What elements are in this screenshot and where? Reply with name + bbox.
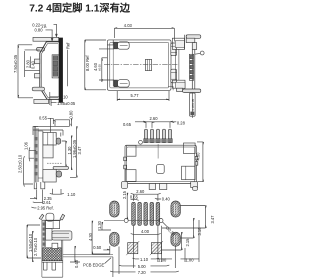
svg-text:0.40: 0.40	[162, 197, 171, 202]
hole circles + center line	[104, 220, 159, 222]
step under leg	[186, 38, 195, 42]
body	[107, 40, 171, 90]
dim 2.15 right low	[162, 232, 182, 250]
svg-text:PCB EDGE: PCB EDGE	[83, 262, 104, 267]
svg-text:0.80: 0.80	[35, 28, 44, 33]
svg-text:5.00: 5.00	[138, 264, 147, 269]
dim 3.47 right	[162, 206, 206, 229]
front plate with contacts	[34, 127, 38, 183]
svg-text:3.47: 3.47	[210, 215, 215, 224]
bottom foot left	[121, 181, 127, 188]
shell outline	[40, 42, 59, 100]
bottom fixing leg	[34, 99, 49, 103]
svg-text:7.50±0.05: 7.50±0.05	[13, 54, 18, 73]
svg-text:4.30: 4.30	[196, 152, 201, 161]
dim 3.47 right	[70, 126, 77, 177]
top-left step	[107, 40, 113, 45]
legs down	[43, 262, 55, 270]
svg-text:2.61: 2.61	[43, 200, 52, 205]
svg-text:1.85±0.05: 1.85±0.05	[57, 101, 76, 106]
bottom leg	[183, 89, 201, 93]
bottom-right step	[168, 86, 173, 90]
dim 3.16 right	[181, 218, 195, 238]
top rear leg	[37, 48, 45, 52]
hatch notch hole	[52, 243, 58, 248]
top fixing leg	[33, 37, 59, 41]
top dome	[46, 213, 54, 221]
svg-text:0.45: 0.45	[74, 259, 79, 268]
top edges	[33, 126, 70, 135]
svg-text:4.30: 4.30	[88, 232, 93, 241]
top pin tip	[56, 138, 61, 144]
pcb edge vertical	[112, 257, 114, 277]
inner rect bottom-left	[125, 170, 136, 182]
right leg bar	[52, 231, 72, 240]
svg-text:0.55: 0.55	[39, 115, 48, 120]
lower block	[43, 169, 56, 182]
svg-text:1.10: 1.10	[140, 257, 149, 262]
svg-text:1.00: 1.00	[158, 258, 167, 263]
dim 4.60 inner	[99, 49, 114, 82]
svg-text:1.10: 1.10	[60, 95, 69, 100]
mid body	[46, 229, 52, 241]
label box	[190, 93, 196, 116]
bottom dim row3 7.20	[110, 270, 179, 273]
body sides	[42, 240, 63, 277]
dim 1.06 left	[29, 147, 36, 161]
dim 4.03	[114, 28, 174, 42]
bottom dim row1	[132, 220, 199, 268]
body column	[38, 131, 43, 182]
top pin block	[43, 133, 56, 146]
dim 1.10 bottom	[50, 92, 59, 105]
dim 4.00 mid	[131, 226, 161, 268]
svg-text:3.16: 3.16	[197, 227, 202, 236]
svg-text:±0.05: ±0.05	[98, 64, 102, 71]
pcb surface lines	[63, 255, 113, 257]
dim 1.50 left	[27, 225, 41, 258]
left tab upper	[35, 59, 40, 64]
dim 1.96 right	[70, 136, 73, 171]
bottom foot right	[191, 182, 198, 188]
top angled tab right	[60, 214, 65, 220]
svg-text:0.65: 0.65	[123, 122, 132, 127]
pin bottom: dark block	[114, 80, 118, 87]
stem line	[191, 93, 193, 118]
dim 2.61	[33, 201, 43, 204]
dim 0.45 right	[70, 246, 80, 262]
hidden leader mid	[47, 162, 62, 164]
shell inner line	[42, 44, 58, 98]
svg-text:0.28: 0.28	[177, 121, 186, 126]
centerline	[104, 63, 179, 65]
middle leg bar	[53, 166, 68, 169]
svg-text:0.65: 0.65	[130, 194, 139, 199]
mid block	[43, 145, 53, 158]
right plates	[192, 43, 195, 93]
svg-text:4.60: 4.60	[93, 62, 98, 71]
edge bumps right	[195, 156, 198, 160]
svg-text:2.15: 2.15	[122, 190, 127, 199]
pin top: slot body	[118, 42, 130, 49]
svg-text:1.50±0.10: 1.50±0.10	[28, 233, 33, 252]
bottom border	[42, 276, 63, 278]
center inner rect	[157, 164, 165, 173]
right tab bottom	[171, 69, 177, 83]
contacts	[53, 56, 58, 76]
dim 7.50 left	[18, 45, 33, 98]
shell face plate thick	[59, 38, 63, 103]
bottom piece with slot	[34, 182, 45, 189]
svg-text:2.60: 2.60	[150, 116, 159, 121]
PCB EDGE label	[83, 258, 111, 268]
dim 4.30 far left	[92, 221, 110, 254]
bottom bumps center	[149, 184, 155, 190]
top leg	[186, 35, 201, 39]
svg-text:0.50: 0.50	[93, 245, 102, 250]
center latch detail	[145, 59, 151, 70]
svg-text:0.40: 0.40	[31, 60, 36, 69]
body top edge	[42, 219, 61, 221]
contact block	[52, 55, 59, 78]
dim 2.15 left top	[126, 193, 129, 220]
svg-text:8.00 Ref: 8.00 Ref	[85, 55, 90, 71]
left tab lower	[35, 74, 40, 78]
pins	[144, 129, 171, 142]
svg-text:Ref: Ref	[65, 42, 70, 49]
bottom dim row2 5.00	[119, 247, 170, 275]
bottom block	[172, 80, 185, 88]
leg mount plate	[185, 35, 187, 50]
top step block	[55, 120, 70, 127]
left verticals	[175, 49, 179, 80]
svg-text:0.9±0.05: 0.9±0.05	[191, 99, 195, 111]
dim 1.30 left	[98, 222, 111, 230]
svg-text:4.03: 4.03	[124, 23, 133, 28]
svg-text:5.77: 5.77	[131, 93, 140, 98]
oval pads	[110, 201, 181, 246]
dim 1.30 right	[62, 141, 67, 166]
dim 2.35	[30, 190, 43, 204]
dim 4.30	[197, 142, 204, 182]
small right block	[192, 43, 196, 50]
inner rect bottom-right	[182, 166, 196, 180]
svg-text:1.00: 1.00	[186, 258, 195, 263]
dim 1.10 bottom right	[50, 189, 64, 194]
contact stack	[189, 54, 193, 80]
dim 2.95 Ref	[31, 206, 36, 209]
inner rect top-right	[184, 143, 196, 154]
pin3 center line	[157, 144, 159, 159]
svg-text:7.20: 7.20	[138, 270, 147, 275]
svg-text:2.70±0.10: 2.70±0.10	[33, 237, 38, 256]
weld circle	[139, 140, 143, 144]
svg-text:4.00: 4.00	[141, 229, 150, 234]
inner vertical left	[112, 45, 114, 86]
top block	[172, 38, 184, 49]
svg-text:3.47: 3.47	[77, 146, 82, 155]
edge bumps left	[124, 157, 127, 161]
dim 2.50 left	[24, 156, 33, 187]
plate contacts	[35, 137, 38, 175]
svg-text:0.80: 0.80	[69, 110, 74, 119]
bottom foot	[177, 88, 183, 91]
svg-text:1.30: 1.30	[97, 220, 102, 229]
dim 1.85 bottom	[51, 99, 57, 106]
lower pin tip	[56, 171, 61, 177]
pin bottom: slot body	[118, 80, 130, 87]
dim 2.70 left	[32, 231, 35, 262]
svg-text:2.95 Ref.: 2.95 Ref.	[37, 205, 54, 210]
slot pads	[132, 202, 160, 225]
hatched square pads	[128, 243, 138, 254]
body outer	[125, 145, 196, 183]
inner rect top-left	[127, 145, 136, 156]
upper block	[46, 221, 60, 229]
left contact strip	[42, 220, 46, 248]
svg-text:7.2 4固定脚 1.1深有边: 7.2 4固定脚 1.1深有边	[29, 2, 131, 15]
svg-text:1.10: 1.10	[67, 192, 76, 197]
dim inner verticals	[25, 50, 40, 77]
right tab top	[171, 43, 177, 56]
svg-text:2.15: 2.15	[185, 238, 190, 247]
hatched block	[43, 248, 62, 261]
dim 5.77	[117, 91, 169, 101]
dim 8.00 Ref	[85, 40, 106, 90]
weld circle	[200, 51, 204, 55]
top angled tab left	[39, 214, 44, 219]
pin top: dark block	[114, 42, 118, 49]
svg-text:2.50±0.10: 2.50±0.10	[18, 154, 23, 173]
bottom rear leg	[32, 87, 44, 91]
bottom plate	[42, 261, 63, 263]
svg-text:1.06: 1.06	[24, 141, 29, 150]
